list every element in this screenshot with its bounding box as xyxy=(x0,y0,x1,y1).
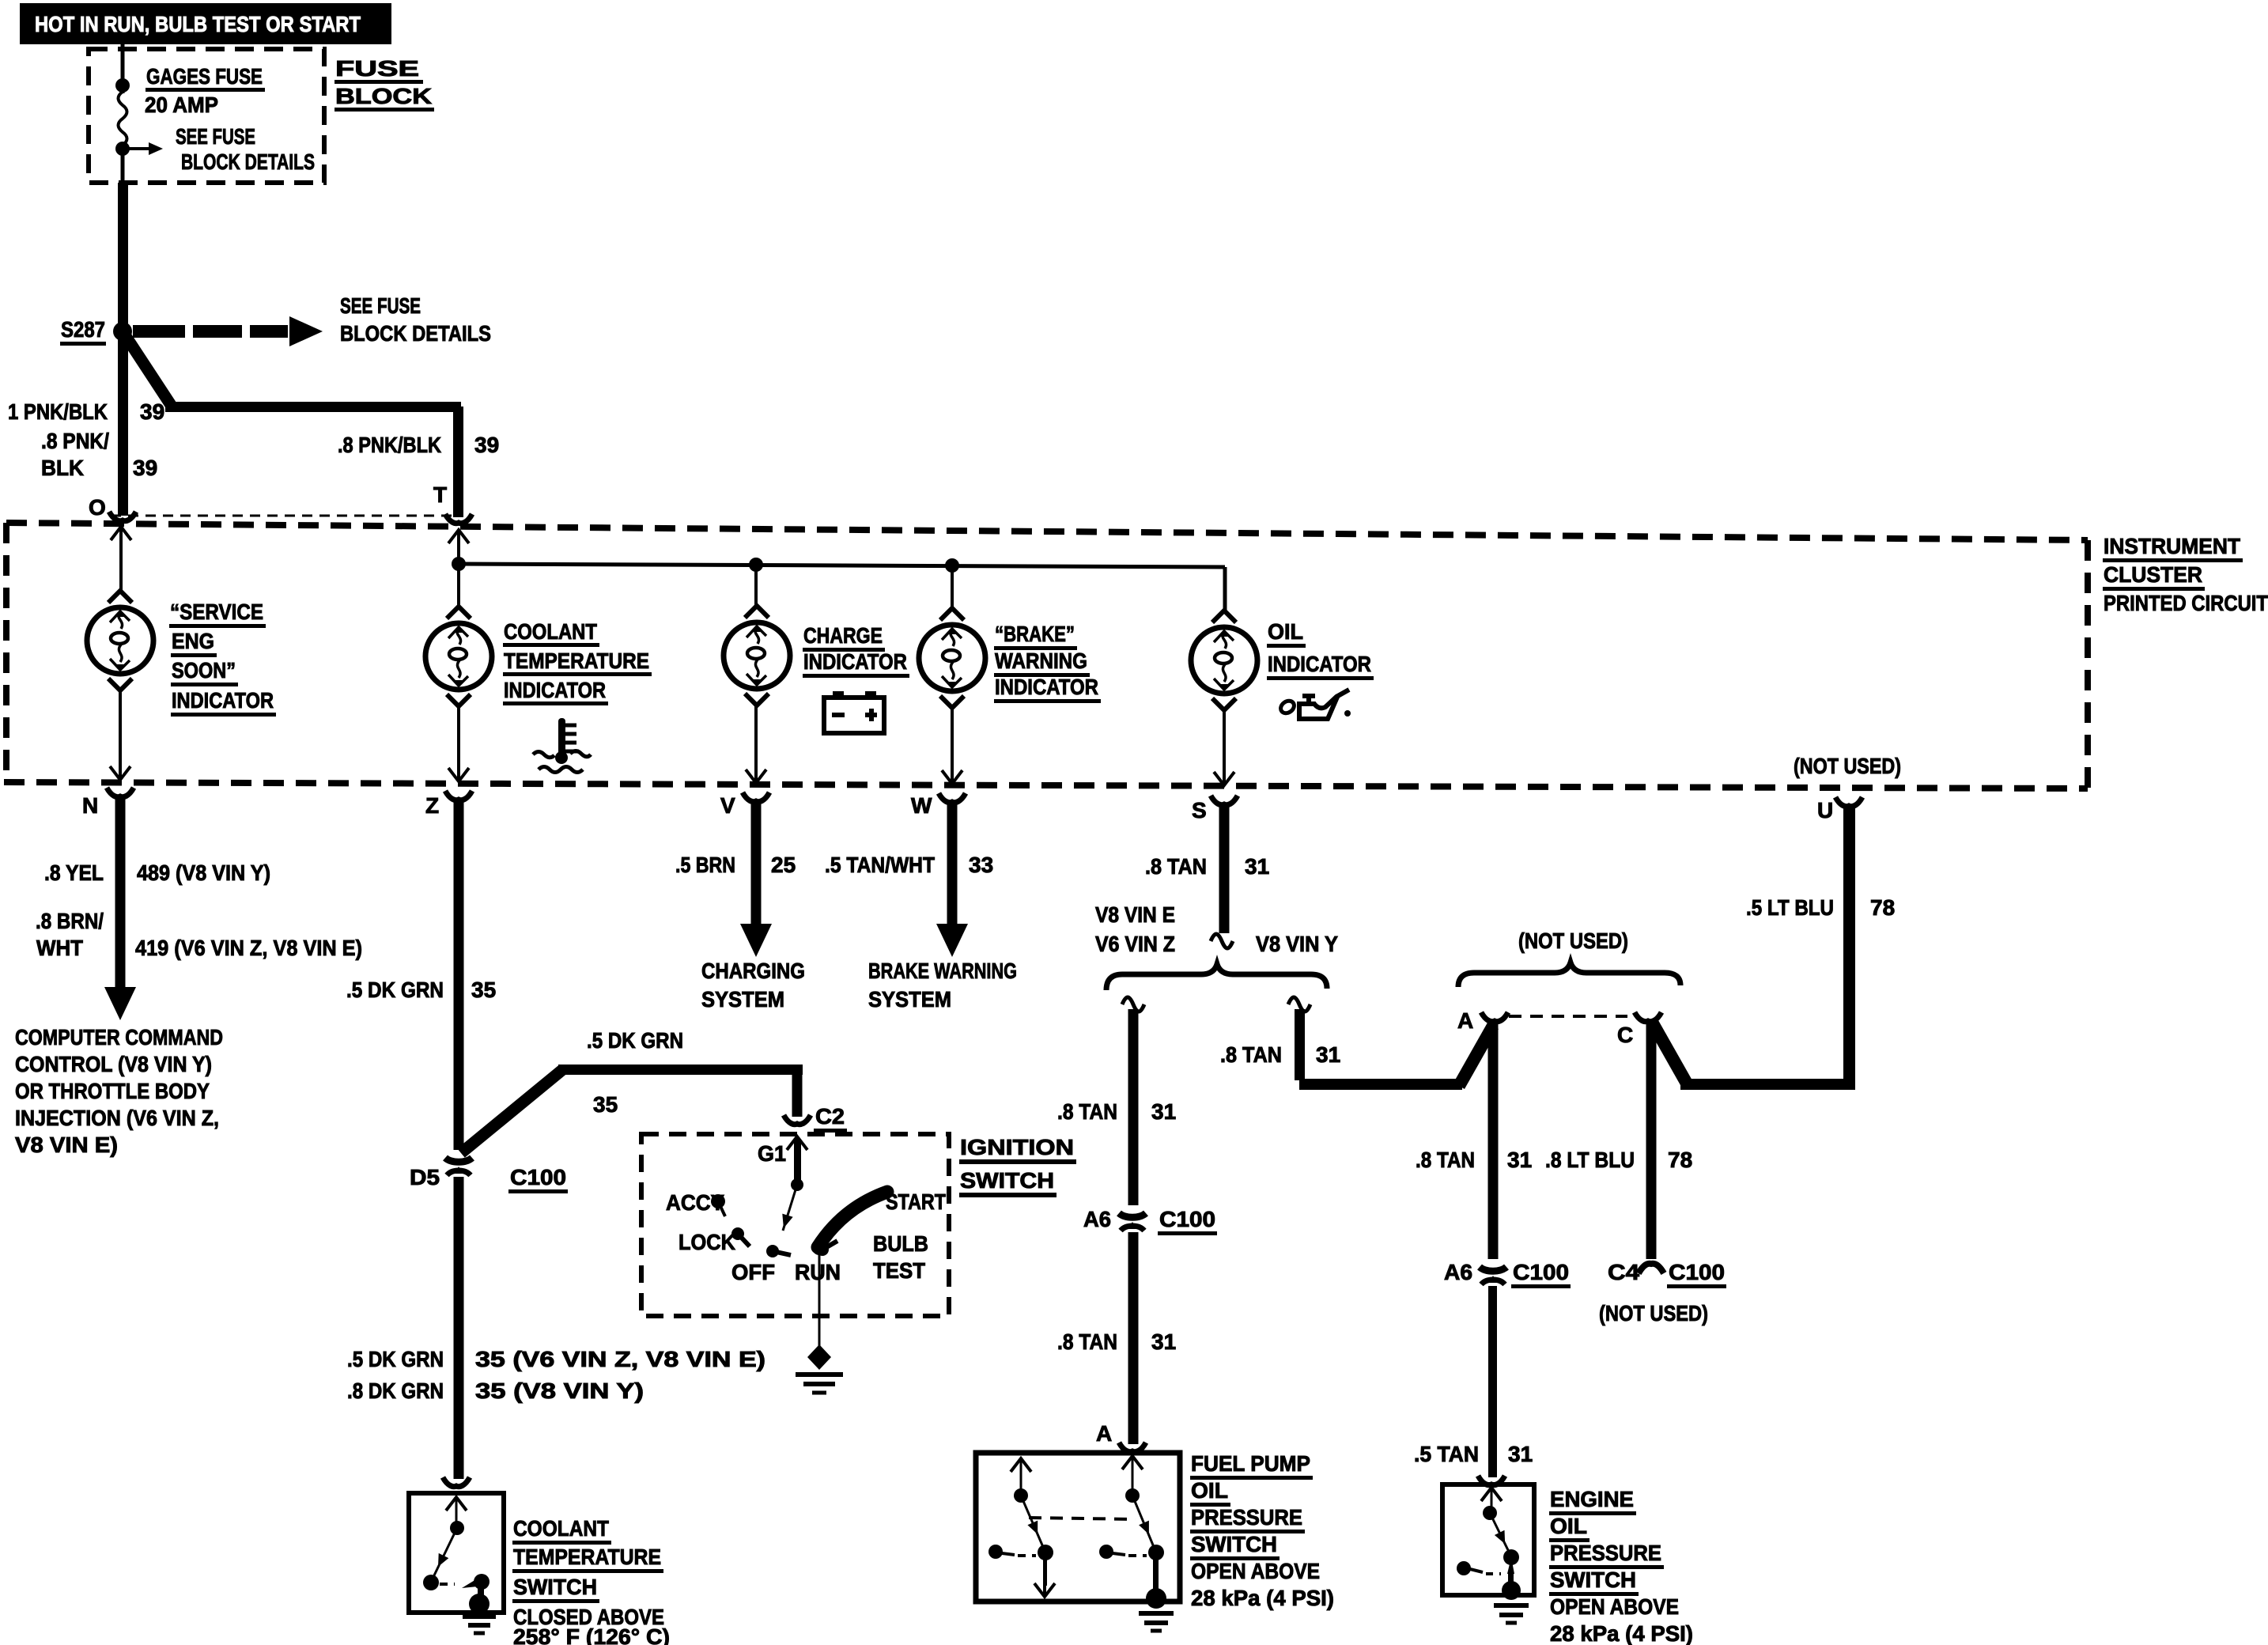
svg-text:START: START xyxy=(886,1189,946,1214)
svg-text:.5 BRN: .5 BRN xyxy=(675,853,735,877)
svg-text:35 (V6 VIN Z, V8 VIN E): 35 (V6 VIN Z, V8 VIN E) xyxy=(475,1347,765,1371)
svg-text:TEMPERATURE: TEMPERATURE xyxy=(504,649,649,673)
svg-text:39: 39 xyxy=(133,456,157,480)
svg-text:31: 31 xyxy=(1316,1042,1340,1067)
svg-text:GAGES FUSE: GAGES FUSE xyxy=(146,64,263,89)
svg-text:78: 78 xyxy=(1668,1148,1692,1172)
svg-text:FUSE: FUSE xyxy=(335,56,419,81)
svg-text:.5 TAN/WHT: .5 TAN/WHT xyxy=(825,853,935,877)
svg-text:C100: C100 xyxy=(1669,1260,1725,1284)
svg-text:A6: A6 xyxy=(1083,1207,1111,1231)
svg-text:31: 31 xyxy=(1507,1148,1532,1172)
svg-text:OR THROTTLE BODY: OR THROTTLE BODY xyxy=(15,1079,210,1103)
svg-text:C2: C2 xyxy=(815,1104,845,1129)
svg-text:T: T xyxy=(433,482,447,507)
svg-text:1 PNK/BLK: 1 PNK/BLK xyxy=(8,399,108,424)
svg-text:78: 78 xyxy=(1870,895,1895,920)
svg-text:INDICATOR: INDICATOR xyxy=(995,675,1098,699)
svg-text:.5 TAN: .5 TAN xyxy=(1414,1442,1479,1466)
svg-text:39: 39 xyxy=(140,399,164,424)
svg-text:39: 39 xyxy=(474,433,499,457)
svg-text:WHT: WHT xyxy=(36,936,83,960)
svg-text:HOT IN RUN, BULB TEST OR START: HOT IN RUN, BULB TEST OR START xyxy=(35,12,361,36)
svg-text:OIL: OIL xyxy=(1550,1514,1587,1538)
svg-text:SWITCH: SWITCH xyxy=(960,1168,1054,1193)
svg-text:31: 31 xyxy=(1151,1099,1176,1124)
svg-text:SYSTEM: SYSTEM xyxy=(868,987,951,1012)
svg-text:.8 LT BLU: .8 LT BLU xyxy=(1545,1148,1635,1172)
svg-text:25: 25 xyxy=(771,853,796,877)
svg-text:COOLANT: COOLANT xyxy=(504,619,597,644)
svg-text:SWITCH: SWITCH xyxy=(1550,1567,1636,1592)
svg-text:RUN: RUN xyxy=(795,1260,841,1284)
svg-text:INDICATOR: INDICATOR xyxy=(504,678,606,702)
svg-text:.8 DK GRN: .8 DK GRN xyxy=(347,1378,444,1403)
svg-text:WARNING: WARNING xyxy=(995,649,1087,673)
svg-text:.8 BRN/: .8 BRN/ xyxy=(36,909,104,933)
svg-text:“SERVICE: “SERVICE xyxy=(170,599,263,624)
svg-text:.5 DK GRN: .5 DK GRN xyxy=(587,1028,683,1053)
svg-text:(NOT USED): (NOT USED) xyxy=(1518,928,1628,953)
svg-text:33: 33 xyxy=(969,853,993,877)
svg-text:SYSTEM: SYSTEM xyxy=(701,987,784,1012)
svg-text:A: A xyxy=(1096,1421,1112,1446)
svg-text:258° F (126° C): 258° F (126° C) xyxy=(513,1624,670,1645)
svg-text:O: O xyxy=(89,495,106,520)
svg-text:ENGINE: ENGINE xyxy=(1550,1487,1634,1511)
svg-text:S287: S287 xyxy=(61,317,105,342)
svg-text:SOON”: SOON” xyxy=(172,658,236,683)
svg-text:INSTRUMENT: INSTRUMENT xyxy=(2104,534,2240,558)
svg-text:C: C xyxy=(1617,1023,1633,1047)
svg-text:CHARGING: CHARGING xyxy=(701,959,805,983)
svg-text:U: U xyxy=(1817,798,1833,822)
svg-text:TEST: TEST xyxy=(873,1258,925,1283)
svg-text:V8 VIN E: V8 VIN E xyxy=(1095,902,1175,927)
svg-text:35: 35 xyxy=(593,1092,618,1117)
svg-text:“BRAKE”: “BRAKE” xyxy=(995,622,1075,646)
svg-text:28 kPa (4 PSI): 28 kPa (4 PSI) xyxy=(1191,1586,1334,1610)
svg-text:.8 YEL: .8 YEL xyxy=(44,860,104,885)
svg-text:OPEN ABOVE: OPEN ABOVE xyxy=(1550,1594,1679,1619)
svg-text:.5 LT BLU: .5 LT BLU xyxy=(1746,895,1834,920)
svg-text:COMPUTER COMMAND: COMPUTER COMMAND xyxy=(15,1025,223,1049)
svg-text:INJECTION (V6 VIN Z,: INJECTION (V6 VIN Z, xyxy=(15,1106,219,1130)
svg-text:TEMPERATURE: TEMPERATURE xyxy=(513,1545,661,1569)
svg-text:C4: C4 xyxy=(1608,1260,1639,1284)
svg-text:S: S xyxy=(1192,798,1207,822)
svg-text:35: 35 xyxy=(471,978,496,1002)
svg-text:CONTROL (V8 VIN Y): CONTROL (V8 VIN Y) xyxy=(15,1052,212,1076)
svg-text:N: N xyxy=(82,793,98,818)
svg-text:31: 31 xyxy=(1245,854,1269,879)
svg-text:BLOCK DETAILS: BLOCK DETAILS xyxy=(181,149,315,174)
svg-text:PRESSURE: PRESSURE xyxy=(1550,1541,1661,1565)
svg-text:INDICATOR: INDICATOR xyxy=(172,688,274,713)
svg-text:CLUSTER: CLUSTER xyxy=(2104,562,2202,587)
svg-text:INDICATOR: INDICATOR xyxy=(1268,652,1371,676)
svg-text:C100: C100 xyxy=(1513,1260,1569,1284)
svg-text:Z: Z xyxy=(425,793,439,818)
svg-text:V8 VIN Y: V8 VIN Y xyxy=(1256,932,1338,956)
svg-text:V6 VIN Z: V6 VIN Z xyxy=(1095,932,1175,956)
svg-text:OIL: OIL xyxy=(1191,1478,1228,1503)
svg-text:.5 DK GRN: .5 DK GRN xyxy=(346,978,444,1002)
svg-text:G1: G1 xyxy=(758,1141,786,1166)
svg-text:A: A xyxy=(1457,1008,1473,1033)
svg-text:BLK: BLK xyxy=(41,456,84,480)
svg-text:20 AMP: 20 AMP xyxy=(145,93,218,117)
svg-text:FUEL PUMP: FUEL PUMP xyxy=(1191,1451,1310,1476)
svg-text:V: V xyxy=(720,793,735,818)
svg-text:OPEN ABOVE: OPEN ABOVE xyxy=(1191,1559,1320,1583)
svg-text:BLOCK DETAILS: BLOCK DETAILS xyxy=(340,321,491,346)
svg-text:LOCK: LOCK xyxy=(679,1230,735,1254)
svg-text:.8 TAN: .8 TAN xyxy=(1057,1099,1117,1124)
svg-text:SEE FUSE: SEE FUSE xyxy=(340,293,421,318)
svg-text:(NOT USED): (NOT USED) xyxy=(1599,1301,1708,1325)
svg-text:489 (V8 VIN Y): 489 (V8 VIN Y) xyxy=(137,860,270,885)
svg-text:V8 VIN E): V8 VIN E) xyxy=(15,1133,118,1157)
svg-text:SWITCH: SWITCH xyxy=(513,1575,597,1599)
svg-text:.8 TAN: .8 TAN xyxy=(1416,1148,1475,1172)
svg-text:A6: A6 xyxy=(1444,1260,1472,1284)
svg-text:BULB: BULB xyxy=(873,1231,928,1256)
svg-text:(NOT USED): (NOT USED) xyxy=(1794,754,1901,778)
svg-text:.8 PNK/: .8 PNK/ xyxy=(41,429,109,453)
svg-text:31: 31 xyxy=(1508,1442,1533,1466)
svg-text:INDICATOR: INDICATOR xyxy=(803,649,907,674)
svg-text:COOLANT: COOLANT xyxy=(513,1516,609,1541)
svg-text:.5 DK GRN: .5 DK GRN xyxy=(347,1347,444,1371)
svg-text:.8 PNK/BLK: .8 PNK/BLK xyxy=(338,433,441,457)
svg-text:31: 31 xyxy=(1151,1329,1176,1354)
svg-text:C100: C100 xyxy=(1159,1207,1215,1231)
svg-text:.8 TAN: .8 TAN xyxy=(1145,854,1207,879)
svg-text:.8 TAN: .8 TAN xyxy=(1220,1042,1282,1067)
svg-text:BRAKE WARNING: BRAKE WARNING xyxy=(868,959,1017,983)
svg-text:PRESSURE: PRESSURE xyxy=(1191,1505,1302,1530)
svg-text:C100: C100 xyxy=(510,1165,566,1189)
svg-text:OIL: OIL xyxy=(1268,619,1303,644)
svg-text:D5: D5 xyxy=(410,1165,440,1189)
svg-text:419 (V6 VIN Z, V8 VIN E): 419 (V6 VIN Z, V8 VIN E) xyxy=(135,936,362,960)
svg-text:W: W xyxy=(911,793,932,818)
svg-text:ENG: ENG xyxy=(172,629,214,653)
svg-text:35 (V8 VIN Y): 35 (V8 VIN Y) xyxy=(475,1378,644,1403)
svg-text:28 kPa (4 PSI): 28 kPa (4 PSI) xyxy=(1550,1621,1693,1645)
svg-text:IGNITION: IGNITION xyxy=(960,1135,1074,1159)
svg-text:PRINTED CIRCUIT: PRINTED CIRCUIT xyxy=(2104,591,2268,615)
svg-text:OFF: OFF xyxy=(731,1260,775,1284)
svg-text:SWITCH: SWITCH xyxy=(1191,1532,1277,1556)
svg-text:CHARGE: CHARGE xyxy=(803,623,883,648)
svg-text:BLOCK: BLOCK xyxy=(335,84,432,108)
svg-text:SEE FUSE: SEE FUSE xyxy=(176,124,255,149)
svg-text:.8 TAN: .8 TAN xyxy=(1057,1329,1117,1354)
